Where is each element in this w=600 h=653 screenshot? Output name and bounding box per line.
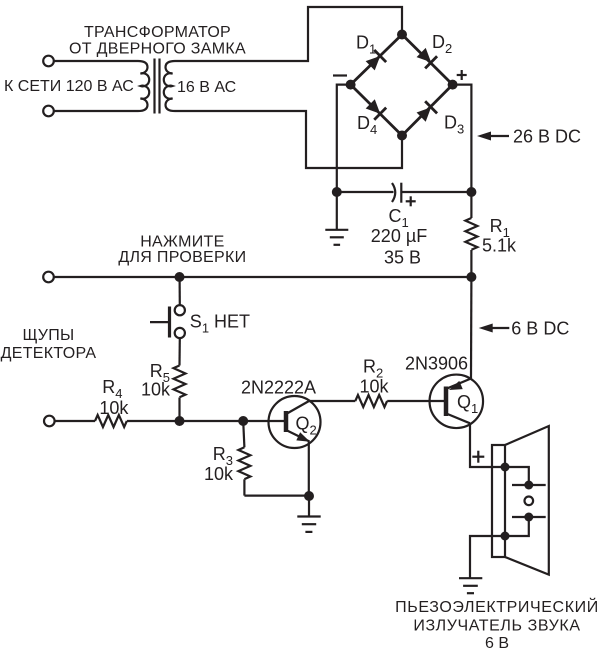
node R1 bottom xyxy=(466,272,476,282)
Q2 emitter arrow xyxy=(296,432,312,446)
bridge edge top-right xyxy=(402,35,453,85)
wire Q1 collector down to piezo xyxy=(470,423,505,467)
svg-text:35 В: 35 В xyxy=(384,247,421,267)
piezo body rect xyxy=(492,445,505,557)
node R5 junction xyxy=(175,416,185,426)
svg-text:ПЬЕЗОЭЛЕКТРИЧЕСКИЙ: ПЬЕЗОЭЛЕКТРИЧЕСКИЙ xyxy=(395,597,599,616)
wire R2 to Q1 base xyxy=(387,400,444,402)
plus sign xyxy=(457,70,467,80)
test row: terminal xyxy=(43,272,54,283)
wire xyxy=(54,110,138,112)
arrow 6 V DC xyxy=(479,318,570,338)
wire test row xyxy=(55,276,472,278)
piezo terminal dot top xyxy=(501,463,510,472)
ground below C1 xyxy=(325,192,348,245)
wire secondary top to bridge top xyxy=(175,7,402,61)
bridge edge bottom-left xyxy=(351,85,402,136)
node emitter ground junction xyxy=(304,491,314,501)
primary terminal top xyxy=(43,56,54,67)
svg-text:10k: 10k xyxy=(360,376,390,396)
primary terminal bottom xyxy=(43,106,54,117)
wire bridge plus node to right rail down xyxy=(453,85,472,192)
resistor R4 xyxy=(95,415,127,427)
resistor R5 xyxy=(174,338,186,421)
resistor R3 xyxy=(238,421,309,496)
svg-text:6 В: 6 В xyxy=(485,635,509,652)
diode D2 xyxy=(415,46,437,68)
wire secondary bottom to bridge bottom xyxy=(175,111,402,168)
resistor R1 xyxy=(465,192,477,277)
piezo element bottom dot xyxy=(524,513,533,522)
probe row terminal xyxy=(44,416,55,427)
svg-text:2N3906: 2N3906 xyxy=(405,354,468,374)
svg-text:ОТ ДВЕРНОГО ЗАМКА: ОТ ДВЕРНОГО ЗАМКА xyxy=(69,41,246,58)
diode D1 xyxy=(364,50,386,72)
svg-text:ЩУПЫ: ЩУПЫ xyxy=(22,327,74,344)
svg-text:ИЗЛУЧАТЕЛЬ ЗВУКА: ИЗЛУЧАТЕЛЬ ЗВУКА xyxy=(413,618,580,635)
svg-text:220 µF: 220 µF xyxy=(371,226,427,246)
transformer T1 primary winding xyxy=(138,61,149,111)
transistor Q2 circle xyxy=(269,396,321,448)
svg-text:ДЛЯ ПРОВЕРКИ: ДЛЯ ПРОВЕРКИ xyxy=(118,249,246,266)
minus sign xyxy=(333,74,347,76)
node bridge top xyxy=(397,30,407,40)
piezo element circle xyxy=(525,497,534,506)
svg-text:2N2222A: 2N2222A xyxy=(241,378,316,398)
ground below Q2 xyxy=(297,496,320,532)
svg-text:ТРАНСФОРМАТОР: ТРАНСФОРМАТОР xyxy=(84,24,231,41)
press-to-test caption xyxy=(118,234,246,267)
piezo plus sign xyxy=(472,451,484,463)
C1 polarity plus xyxy=(406,196,416,206)
svg-text:ДЕТЕКТОРА: ДЕТЕКТОРА xyxy=(1,345,97,362)
ground below piezo xyxy=(459,578,482,593)
svg-text:16 В АС: 16 В АС xyxy=(177,79,236,96)
rail R1 to Q1 emitter xyxy=(470,277,473,379)
Q2 emitter wire down xyxy=(308,442,310,497)
transformer T1 secondary winding xyxy=(164,61,175,111)
wire probe row right xyxy=(127,420,285,422)
node C1 right xyxy=(466,187,476,197)
node C1 left xyxy=(332,187,342,197)
piezo horn xyxy=(505,426,549,575)
transformer caption xyxy=(69,24,246,58)
node R3 junction xyxy=(238,416,248,426)
Q2 emitter xyxy=(287,431,310,442)
Q1 collector xyxy=(448,414,471,423)
arrow 26 V DC xyxy=(477,126,581,146)
wire xyxy=(54,60,138,62)
svg-text:10k: 10k xyxy=(141,380,171,400)
svg-text:К СЕТИ 120 В АС: К СЕТИ 120 В АС xyxy=(4,78,134,95)
transistor Q1 circle xyxy=(430,375,484,429)
wire C1 right xyxy=(401,191,471,193)
resistor R2 xyxy=(355,395,387,407)
transformer core xyxy=(153,59,155,114)
piezo terminal dot bottom xyxy=(501,532,510,541)
node bridge right xyxy=(448,80,458,90)
Q1 emitter xyxy=(448,379,472,389)
svg-text:6 В DC: 6 В DC xyxy=(511,318,569,338)
wire Q2 collector to R2 xyxy=(309,400,355,402)
piezo inner wiring bottom xyxy=(505,517,529,536)
capacitor C1 curved plate xyxy=(392,183,395,202)
svg-text:10k: 10k xyxy=(204,464,234,484)
wire C1 left xyxy=(337,191,394,193)
wire probe row left xyxy=(55,420,95,422)
node test row junction xyxy=(175,272,185,282)
Q1 emitter arrow xyxy=(447,381,462,394)
piezo element top dot xyxy=(524,481,533,490)
svg-text:26 В DC: 26 В DC xyxy=(513,126,581,146)
Q2 collector xyxy=(287,401,309,414)
Q2 base bar xyxy=(284,411,289,432)
capacitor C1 straight plate xyxy=(400,183,402,203)
wire bridge minus node down to C1 xyxy=(337,85,351,192)
bridge edge top-left xyxy=(351,35,402,85)
diode D4 xyxy=(364,98,386,120)
switch S1 xyxy=(150,277,185,338)
probes caption xyxy=(1,327,97,362)
piezo bottom wire to ground xyxy=(470,536,505,578)
piezo element top plate xyxy=(512,484,546,486)
Q1 base bar xyxy=(444,387,449,417)
bridge edge bottom-right xyxy=(402,85,453,136)
diode D3 xyxy=(415,101,437,123)
svg-text:НАЖМИТЕ: НАЖМИТЕ xyxy=(140,234,224,251)
node bridge bottom xyxy=(397,131,407,141)
piezo inner wiring top xyxy=(505,467,529,485)
svg-text:10k: 10k xyxy=(99,398,129,418)
piezo element bottom plate xyxy=(512,516,546,518)
piezo caption xyxy=(395,597,599,652)
node bridge left xyxy=(346,80,356,90)
svg-text:5.1k: 5.1k xyxy=(482,236,517,256)
